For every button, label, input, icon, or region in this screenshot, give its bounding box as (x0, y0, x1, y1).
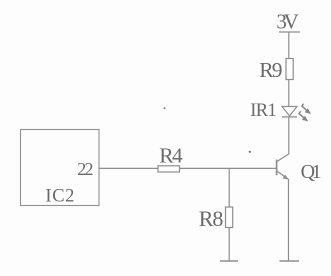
power rail bar 3V (279, 31, 300, 33)
ground bar under R8 (220, 260, 238, 262)
ground bar under Q1 emitter (280, 260, 300, 262)
IR1 emission arrow 2 (299, 111, 308, 121)
transistor Q1 (277, 154, 322, 183)
IR1 emission arrow 1 (302, 104, 311, 114)
stray speck 2 (249, 151, 251, 153)
svg-text:3V: 3V (276, 9, 298, 33)
wire IR1 to Q1 collector (288, 117, 290, 154)
resistor R4 (158, 144, 183, 172)
pin 22 label (77, 159, 93, 179)
resistor R8 (199, 206, 233, 231)
svg-text:IR1: IR1 (250, 101, 277, 121)
LED IR1 (250, 101, 297, 121)
wire R4 to Q1 base (180, 167, 277, 169)
IC IC2 (21, 130, 100, 207)
svg-text:R4: R4 (159, 144, 183, 168)
svg-text:22: 22 (77, 159, 93, 179)
svg-text:Q1: Q1 (301, 161, 322, 183)
wire R9 to IR1 (288, 80, 290, 107)
wire IC2 pin 22 to R4 (99, 167, 158, 169)
power 3V label (276, 9, 298, 33)
wire 3V bar to R9 (288, 32, 290, 59)
wire R8 to ground (228, 228, 230, 262)
resistor R9 (259, 58, 293, 82)
wire node junction to R8 (228, 168, 230, 207)
stray speck 1 (164, 107, 166, 109)
svg-text:IC2: IC2 (45, 187, 74, 207)
wire Q1 emitter to ground (288, 179, 290, 261)
svg-text:R9: R9 (259, 58, 282, 82)
svg-text:R8: R8 (199, 206, 224, 231)
